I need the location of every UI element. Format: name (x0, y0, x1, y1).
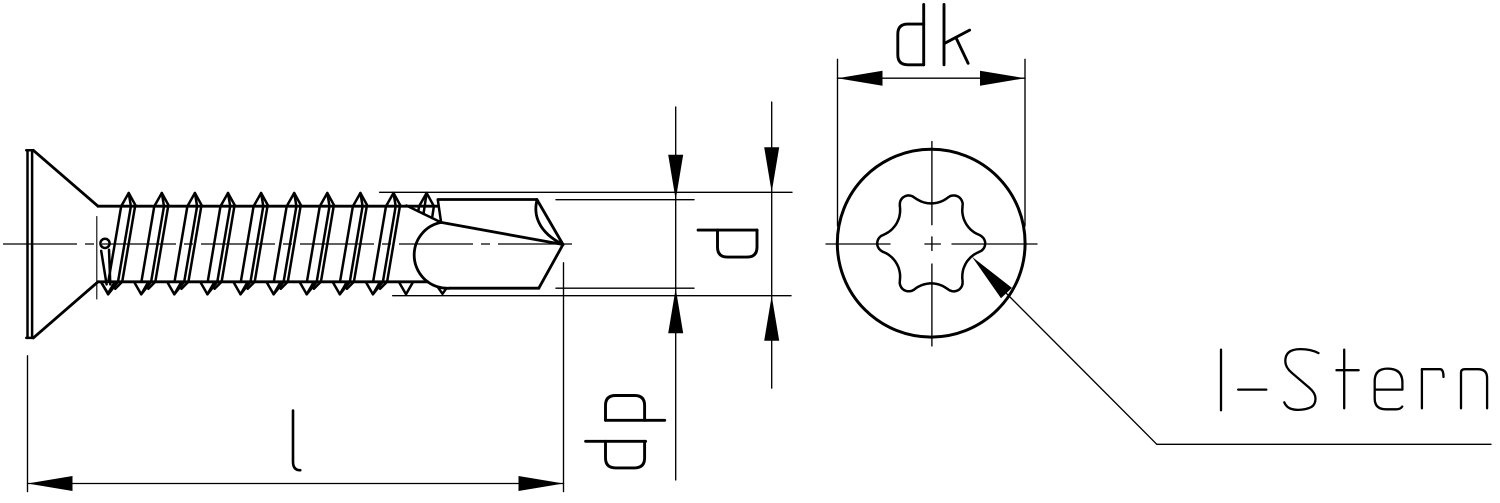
l extension line left (27, 356, 29, 492)
drill body bottom edge (450, 287, 539, 290)
drill chamfer bottom edge (539, 245, 563, 289)
bottom thread crest 2 (134, 282, 148, 295)
thread start wedge right edge (109, 250, 110, 285)
label dk - d bowl (898, 24, 924, 65)
label l (293, 411, 300, 471)
bottom thread crest 3 (167, 282, 181, 295)
shank bottom root line (98, 280, 428, 283)
head face right line (31, 150, 34, 338)
label I-Stern: I (1220, 350, 1222, 411)
d arrow bottom (764, 296, 779, 341)
label d bowl (718, 230, 758, 257)
torx recess (877, 195, 985, 291)
label d stem (698, 229, 757, 232)
label dk - k stem (943, 5, 946, 65)
label I-Stern: e (1375, 369, 1403, 410)
drill chamfer top edge (537, 200, 563, 245)
bottom thread vestige on drill (439, 288, 447, 294)
bottom thread crest 9 (366, 282, 380, 295)
dk arrow left (838, 71, 883, 86)
thread start ball (100, 239, 109, 248)
drill body top edge (438, 198, 537, 201)
dp arrow bottom (668, 288, 683, 333)
label dp - p bowl (606, 396, 645, 421)
drill cutting lip (441, 222, 563, 244)
leader line horizontal (1157, 443, 1491, 445)
head cone bottom edge (33, 282, 98, 338)
thread crest 5 (254, 193, 269, 206)
label dk - d stem (922, 5, 925, 65)
label dp - d stem (586, 440, 646, 443)
dk extension line left (837, 59, 839, 226)
thread crest 8 (353, 193, 368, 206)
bottom thread crest 10 (399, 282, 413, 295)
head bottom edge (26, 337, 33, 340)
l extension line right (563, 263, 565, 492)
label I-Stern: S (1284, 349, 1318, 410)
thread crest 2 (154, 193, 169, 206)
bottom thread crest 7 (300, 282, 314, 295)
head cone top edge (33, 150, 98, 206)
l arrow right (519, 476, 564, 491)
thread start V (101, 282, 115, 294)
dk arrow right (980, 71, 1025, 86)
thread crest 10 (419, 193, 434, 206)
drill top corner stub (438, 200, 441, 222)
bottom thread crest 8 (333, 282, 347, 295)
dp dimension line (675, 107, 677, 480)
label I-Stern: t stem (1343, 350, 1345, 409)
thread crest 7 (320, 193, 335, 206)
dp arrow top (668, 155, 683, 200)
thread start wedge left edge (101, 251, 106, 285)
circle horizontal centerline left (826, 243, 890, 245)
label I-Stern: r bar (1422, 369, 1444, 377)
head top edge (26, 149, 33, 152)
l arrow left (28, 476, 73, 491)
thread crest 1 (121, 193, 136, 206)
d dimension line (771, 102, 773, 388)
thread crest 9 (386, 193, 401, 206)
circle vertical centerline lower (931, 264, 933, 346)
head face left line (26, 150, 29, 338)
thread crest 4 (221, 193, 236, 206)
dp extension line bottom (556, 287, 694, 289)
d extension line top (380, 191, 792, 193)
center cross horizontal (925, 243, 941, 245)
dk extension line right (1024, 59, 1026, 226)
bottom thread crest 5 (233, 282, 247, 295)
bottom thread crest 6 (266, 282, 280, 295)
label I-Stern: hyphen (1238, 388, 1266, 390)
head circle (837, 149, 1025, 337)
label dp - p stem (606, 419, 665, 422)
label dp - d bowl (606, 441, 645, 468)
circle vertical centerline upper (931, 142, 933, 225)
drill shoulder line (406, 206, 441, 223)
label I-Stern: r stem (1421, 369, 1423, 408)
d arrow top (764, 147, 779, 192)
wire: screw axis centerline (dash-dot) (3, 243, 578, 245)
d extension line bottom (393, 295, 791, 297)
leader arrow (972, 257, 1012, 298)
leader line diagonal (1004, 291, 1157, 444)
center cross vertical (931, 237, 933, 251)
thread crest 3 (187, 193, 202, 206)
shank top root line (98, 205, 438, 208)
cone-shank junction line (96, 217, 98, 300)
l dimension line (28, 483, 564, 485)
drill cutting face curve (536, 201, 563, 245)
drill flute arc (414, 222, 450, 288)
thread crest 6 (287, 193, 302, 206)
circle horizontal centerline right (952, 243, 1037, 245)
dk dimension line (838, 77, 1026, 79)
bottom thread crest 4 (200, 282, 214, 295)
bottom thread crest 1 (101, 282, 115, 295)
label I-Stern: n (1461, 369, 1487, 408)
label dk - k diagonal (945, 30, 970, 43)
label dk - k leg (956, 38, 968, 64)
label I-Stern: t bar (1337, 369, 1359, 371)
dp extension line top (556, 199, 694, 201)
